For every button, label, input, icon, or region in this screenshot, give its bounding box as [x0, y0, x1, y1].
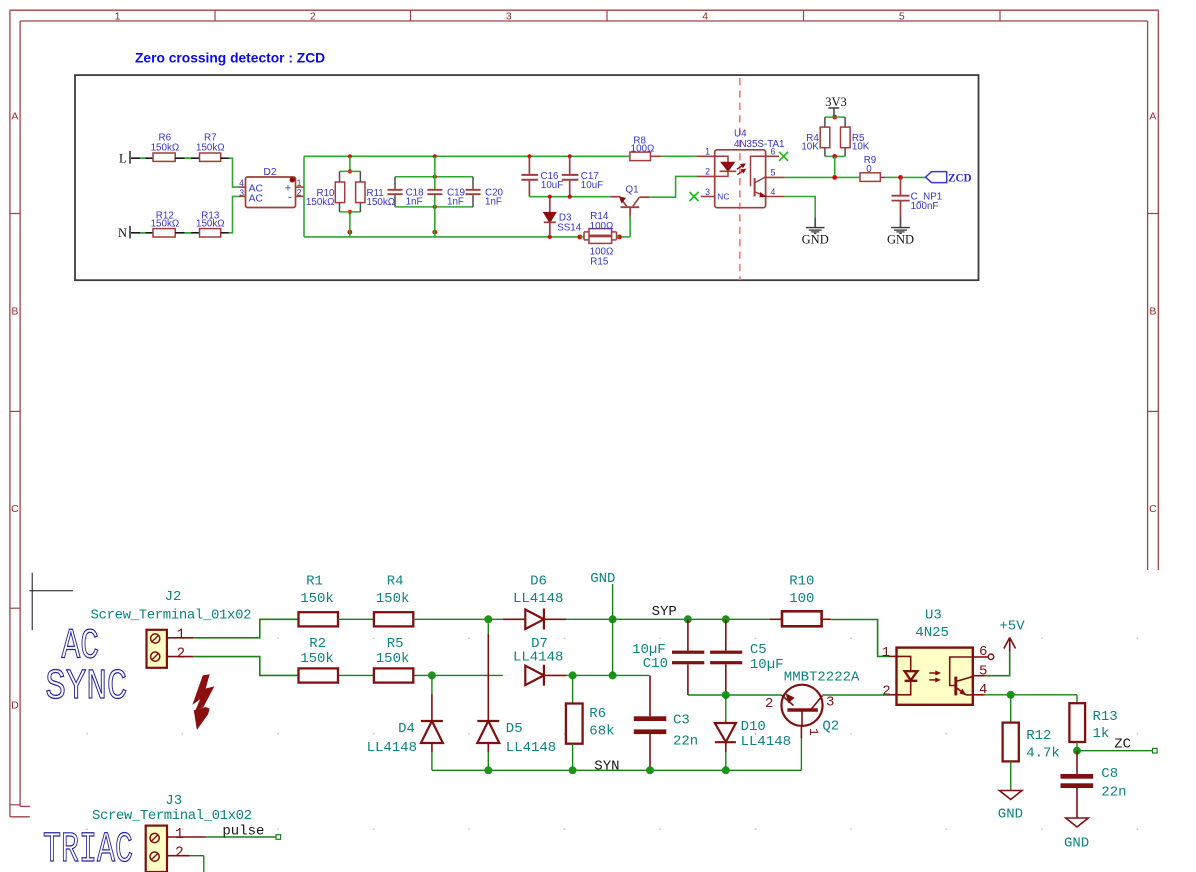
svg-text:1: 1 [115, 10, 121, 22]
svg-text:R5: R5 [387, 636, 404, 652]
wire D6 to GND node [566, 615, 617, 623]
svg-text:1nF: 1nF [406, 197, 423, 208]
svg-text:+5V: +5V [999, 619, 1025, 635]
connector J2 Screw_Terminal_01x02 [91, 589, 252, 668]
svg-text:100Ω: 100Ω [631, 143, 655, 154]
wire R4R5 to out rail [834, 156, 836, 177]
resistor R15 100 [589, 237, 613, 268]
capacitor C16 10uF [521, 156, 563, 196]
svg-text:1: 1 [177, 628, 186, 644]
svg-text:C3: C3 [673, 713, 690, 729]
resistor R12 150k [151, 210, 180, 237]
frame column numbers [115, 10, 905, 22]
svg-text:D6: D6 [530, 573, 547, 589]
svg-text:2: 2 [705, 167, 710, 177]
no-connect X pin6 [779, 152, 788, 161]
svg-text:GND: GND [590, 571, 615, 587]
svg-text:A: A [1149, 111, 1156, 123]
svg-text:LL4148: LL4148 [506, 740, 556, 756]
resistor R7 150k [196, 132, 225, 161]
diode D4 LL4148 [367, 675, 443, 770]
optocoupler U4 4N35S-TA1 [697, 129, 785, 208]
svg-text:Screw_Terminal_01x02: Screw_Terminal_01x02 [92, 808, 252, 824]
wire C18-C20 parallel box [395, 175, 473, 209]
svg-text:C8: C8 [1101, 766, 1118, 782]
svg-text:4N25: 4N25 [915, 625, 949, 641]
node N [118, 226, 130, 240]
power +5V [985, 619, 1026, 676]
svg-text:1nF: 1nF [485, 197, 502, 208]
svg-text:100: 100 [789, 591, 814, 607]
svg-text:AC: AC [249, 194, 264, 205]
wire Q1 collector to U4 pin2 [650, 176, 697, 197]
resistor R4 150k [374, 573, 413, 626]
svg-text:5: 5 [771, 168, 776, 178]
svg-text:ZC: ZC [1114, 737, 1131, 753]
wire out rail [785, 175, 926, 180]
svg-text:LL4148: LL4148 [513, 591, 563, 607]
svg-text:C: C [1149, 503, 1157, 515]
svg-text:10µF: 10µF [750, 657, 784, 673]
svg-text:4: 4 [771, 187, 776, 197]
svg-text:R4: R4 [387, 573, 404, 589]
svg-text:LL4148: LL4148 [513, 650, 563, 666]
connector J3 Screw_Terminal_01x02 [92, 793, 252, 872]
diode D10 LL4148 [715, 695, 791, 770]
svg-text:3: 3 [826, 695, 834, 711]
resistor R12 4.7k [1003, 695, 1060, 791]
svg-text:J3: J3 [165, 793, 182, 809]
wire SYN row [432, 766, 802, 774]
svg-text:R6: R6 [589, 706, 606, 722]
resistor R2 150k [299, 636, 339, 683]
capacitor C19 1nF [427, 156, 465, 237]
capacitor C17 10uF [562, 156, 603, 196]
diode D3 SS14 [544, 197, 582, 237]
svg-text:10uF: 10uF [581, 180, 603, 191]
resistor R10 150k vertical [306, 156, 360, 237]
grid dots [86, 638, 1138, 831]
wire R6 to R7 [175, 157, 199, 159]
svg-text:100Ω: 100Ω [590, 221, 614, 232]
ground GND below C8 [1064, 818, 1089, 852]
resistor R1 150k [299, 573, 339, 626]
diode D6 LL4148 [503, 573, 566, 629]
capacitor C5 10uF [710, 619, 783, 695]
svg-text:ZCD: ZCD [948, 173, 972, 185]
svg-text:150k: 150k [376, 651, 410, 667]
svg-text:Q1: Q1 [625, 185, 638, 196]
capacitor C8 22n [1061, 751, 1127, 818]
svg-text:D10: D10 [741, 719, 766, 735]
resistor R9 0 [860, 155, 880, 181]
svg-text:2: 2 [175, 846, 184, 862]
svg-text:R12: R12 [1026, 728, 1051, 744]
wire D2 output vertical [303, 156, 305, 237]
resistor R10 100 [782, 573, 822, 626]
svg-text:3V3: 3V3 [825, 95, 847, 109]
wire U4 pin4 to GND [785, 197, 816, 218]
capacitor C3 22n [634, 675, 698, 770]
resistor R13 1k [1069, 695, 1117, 751]
svg-text:150kΩ: 150kΩ [196, 143, 225, 154]
svg-text:3: 3 [506, 10, 512, 22]
svg-text:10K: 10K [801, 141, 819, 152]
svg-text:1: 1 [175, 827, 184, 843]
frame row letters [11, 111, 1157, 712]
svg-text:3: 3 [705, 187, 710, 197]
wire N to R12 [131, 232, 153, 234]
svg-text:1: 1 [882, 645, 890, 661]
svg-text:1: 1 [806, 728, 821, 736]
resistor R5 150k [374, 636, 413, 683]
svg-text:Q2: Q2 [822, 719, 839, 735]
svg-text:D5: D5 [506, 721, 523, 737]
svg-text:150kΩ: 150kΩ [151, 143, 180, 154]
svg-text:SYNC: SYNC [45, 662, 127, 711]
svg-text:5: 5 [979, 663, 987, 679]
resistor R8 100 [630, 135, 654, 160]
capacitor C10 10uF [632, 619, 704, 695]
wire R10 to U3 pin1 [770, 619, 889, 656]
wire Q2 emitter to SYN [800, 726, 802, 770]
svg-text:68k: 68k [589, 723, 614, 739]
hierarchical label ZCD [926, 172, 972, 185]
svg-text:4N35S-TA1: 4N35S-TA1 [734, 139, 784, 150]
wire mid line [529, 195, 610, 199]
svg-text:D4: D4 [398, 721, 415, 737]
svg-text:Screw_Terminal_01x02: Screw_Terminal_01x02 [91, 607, 252, 623]
svg-text:GND: GND [802, 233, 829, 247]
svg-text:4.7k: 4.7k [1026, 746, 1060, 762]
resistor R5 10K [841, 127, 870, 152]
svg-text:2: 2 [765, 696, 773, 712]
svg-text:1: 1 [705, 147, 710, 157]
wire R12 to R13 [175, 232, 199, 234]
resistor R6 150k [151, 132, 180, 161]
svg-text:C5: C5 [750, 642, 767, 658]
wire R1 to R4 [338, 618, 374, 620]
resistor R4 10K [801, 115, 845, 159]
svg-text:0: 0 [866, 164, 872, 175]
wire D7 to R6 to GND vertical [566, 584, 649, 679]
svg-text:R2: R2 [309, 636, 326, 652]
svg-text:NC: NC [717, 192, 729, 202]
wire R7 to D2 pin4 [221, 158, 240, 187]
wire R2 row [338, 671, 503, 679]
wire R13 to D2 pin3 [221, 196, 240, 232]
svg-text:R15: R15 [590, 256, 609, 267]
svg-text:LL4148: LL4148 [741, 734, 791, 750]
svg-text:R1: R1 [306, 573, 323, 589]
ground GND right [887, 218, 914, 247]
svg-text:Zero crossing detector : ZCD: Zero crossing detector : ZCD [135, 51, 325, 66]
transistor Q2 MMBT2222A [765, 670, 860, 736]
svg-text:10uF: 10uF [541, 180, 563, 191]
svg-text:N: N [118, 226, 127, 240]
resistor R13 150k [196, 210, 225, 237]
power 3V3 [825, 95, 847, 117]
svg-text:5: 5 [899, 10, 905, 22]
svg-text:150k: 150k [300, 651, 334, 667]
svg-text:150kΩ: 150kΩ [367, 197, 396, 208]
svg-text:4: 4 [239, 178, 244, 188]
svg-text:6: 6 [979, 644, 987, 660]
svg-text:-: - [288, 192, 292, 204]
svg-text:B: B [1149, 306, 1156, 318]
svg-text:C: C [11, 503, 19, 515]
svg-text:B: B [11, 306, 18, 318]
svg-text:150kΩ: 150kΩ [151, 219, 180, 230]
wire Q1 base to bottom rail [629, 217, 631, 237]
svg-text:1nF: 1nF [447, 197, 464, 208]
lightning bolt symbol [194, 675, 214, 710]
svg-text:L: L [119, 152, 127, 166]
svg-text:D: D [11, 700, 19, 712]
capacitor C_NP1 100nF [892, 177, 943, 217]
wire ZC output [1073, 747, 1157, 755]
svg-text:SYN: SYN [594, 759, 619, 775]
junction dots top rail [348, 154, 572, 158]
wire L to R6 [131, 157, 153, 159]
svg-text:MMBT2222A: MMBT2222A [784, 670, 860, 686]
svg-text:4: 4 [979, 682, 987, 698]
svg-text:R10: R10 [789, 573, 814, 589]
wire U3 pin4 row [985, 691, 1078, 699]
svg-text:C10: C10 [643, 656, 668, 672]
ZCD circuit box [75, 75, 979, 280]
svg-text:150k: 150k [300, 591, 334, 607]
svg-text:150kΩ: 150kΩ [306, 197, 335, 208]
svg-text:R13: R13 [1093, 709, 1118, 725]
transistor Q1 [610, 185, 649, 217]
svg-text:6: 6 [771, 147, 776, 157]
capacitor C20 1nF [466, 177, 504, 208]
no-connect X pin3 [690, 192, 699, 201]
svg-text:A: A [11, 111, 18, 123]
junction dots bottom rail [348, 230, 622, 240]
svg-text:U4: U4 [734, 129, 747, 140]
svg-text:GND: GND [887, 233, 914, 247]
svg-text:GND: GND [998, 807, 1023, 823]
text AC SYNC [45, 622, 127, 712]
svg-text:pulse: pulse [222, 824, 264, 840]
ground GND below R12 [998, 791, 1023, 823]
svg-text:J2: J2 [165, 589, 182, 605]
svg-text:U3: U3 [925, 607, 942, 623]
svg-text:4: 4 [702, 10, 708, 22]
wire C10 C5 to Q2 row [688, 691, 782, 699]
optocoupler U3 4N25 [882, 607, 994, 705]
svg-text:LL4148: LL4148 [367, 740, 417, 756]
wire pulse [206, 835, 281, 840]
svg-text:2: 2 [882, 684, 890, 700]
svg-text:SS14: SS14 [557, 222, 582, 233]
wire bottom rail [304, 236, 630, 238]
svg-text:1: 1 [297, 178, 302, 188]
sheet origin crosshair [29, 573, 73, 631]
resistor R11 150k vertical [356, 182, 395, 208]
ground GND left [802, 218, 829, 247]
svg-text:10K: 10K [852, 141, 870, 152]
svg-text:TRIAC: TRIAC [43, 825, 133, 872]
diode D7 LL4148 [513, 636, 566, 686]
wire J2 pin2 to R2 [193, 657, 298, 676]
svg-text:SYP: SYP [652, 604, 677, 620]
svg-text:2: 2 [310, 10, 316, 22]
svg-text:1k: 1k [1093, 726, 1110, 742]
svg-text:2: 2 [177, 646, 186, 662]
svg-text:100nF: 100nF [911, 201, 939, 212]
red dashed line [739, 78, 741, 280]
svg-text:D2: D2 [263, 167, 276, 178]
svg-text:150k: 150k [376, 591, 410, 607]
wire Q2 collector to U3 pin2 [823, 694, 890, 696]
diode D5 LL4148 [477, 623, 556, 770]
wire J3 pin2 [190, 856, 204, 872]
wire R4 to D6 [413, 615, 502, 623]
resistor R6 68k vertical [566, 675, 615, 770]
svg-text:150kΩ: 150kΩ [196, 219, 225, 230]
svg-text:22n: 22n [1101, 785, 1126, 801]
resistor R14 100 [580, 211, 619, 240]
wire SYP row [613, 615, 782, 623]
svg-text:22n: 22n [673, 734, 698, 750]
wire top rail [304, 155, 697, 157]
node L [119, 151, 130, 166]
svg-text:GND: GND [1064, 836, 1089, 852]
bridge rectifier D2 [239, 167, 304, 208]
capacitor C18 1nF [388, 177, 425, 208]
svg-text:2: 2 [297, 187, 302, 197]
wire J2 pin1 to R1 [193, 619, 298, 638]
svg-text:3: 3 [239, 188, 244, 198]
